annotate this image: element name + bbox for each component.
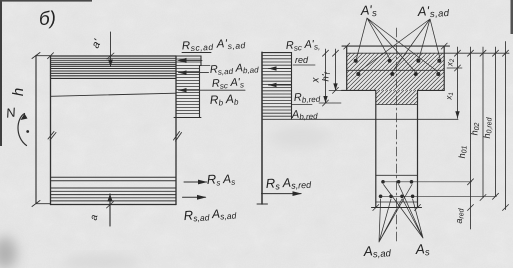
- a_red bottom tick: [468, 205, 474, 211]
- layer boundary / dimension datum line: [347, 52, 509, 54]
- bottom rebar row 1 (original A_s): [381, 180, 413, 184]
- h'_f bottom arrow: [333, 83, 337, 90]
- reduced block hatch: [262, 56, 292, 117]
- scan artifact: bottom-left smudge: [0, 237, 17, 268]
- arrow R_s A_s,red: [262, 193, 302, 195]
- dimension x (compressed depth) line: [325, 49, 327, 103]
- bottom added layer hatch: [51, 188, 177, 201]
- dimension a tick: [107, 202, 114, 209]
- svg-text:h: h: [10, 88, 27, 96]
- beam corner tick: [48, 53, 54, 59]
- moment center dot: [26, 130, 29, 133]
- flange top edge (with width ticks): [342, 45, 450, 47]
- dimension h: bottom tick: [32, 201, 50, 207]
- h_0,red bottom tick: [493, 193, 499, 199]
- flange bottom: [342, 89, 445, 91]
- section hatch (flange): [347, 53, 445, 90]
- h_01 datum tick: [468, 50, 474, 56]
- svg-text:б): б): [38, 8, 56, 30]
- reduced stress block outline: [262, 53, 292, 120]
- stress block bottom extension: [174, 117, 201, 119]
- tick at top datum: [455, 50, 461, 56]
- moment arc: [18, 114, 27, 146]
- h_red bottom tick: [503, 205, 509, 211]
- h_02 datum tick: [480, 50, 486, 56]
- dimension h'_f line: [335, 49, 337, 90]
- label underline: [293, 64, 315, 66]
- extension line steel row 1: [383, 181, 472, 183]
- top hatch band 1 (added compression layer): [51, 58, 177, 64]
- web bottom right tick: [415, 205, 421, 211]
- band 2 lower boundary: [51, 75, 177, 77]
- old flange top line: [347, 69, 445, 71]
- section reference line: [261, 52, 263, 204]
- bottom hatch band upper lines: [51, 177, 177, 181]
- dimension x2/x1 vertical: [457, 47, 459, 118]
- web sides: [376, 90, 418, 207]
- original compression steel level line: [51, 93, 177, 96]
- flange top right tick: [441, 43, 447, 49]
- extension line steel row 2: [379, 195, 497, 197]
- flange top left tick: [344, 43, 350, 49]
- h_01 bottom tick: [468, 179, 474, 185]
- web bottom left tick: [373, 205, 379, 211]
- break mark left edge: [48, 132, 56, 141]
- scan artifact: right edge top: [511, 0, 513, 34]
- arrow R_b,ad: [179, 72, 209, 74]
- beam bottom edge: [51, 204, 177, 206]
- h_red datum tick: [503, 50, 509, 56]
- arrow R_sc,ad: [179, 58, 203, 62]
- tick at x2 bottom: [455, 65, 461, 71]
- label 3 underline / arrow R_sc: [179, 89, 246, 91]
- beam outline right edge: [175, 56, 177, 205]
- break mark right edge: [174, 132, 182, 142]
- dimension a arrow: [107, 194, 112, 202]
- scan artifact: top edge line: [0, 0, 92, 2]
- dimension a' line: [110, 32, 112, 67]
- compression zone line: [51, 77, 177, 79]
- flange rebar row 1 (added): [354, 59, 442, 63]
- extension line at x2 level: [447, 67, 462, 69]
- svg-text:red: red: [295, 55, 309, 65]
- leaders from A'_s,ad: [359, 19, 440, 72]
- reference line foot: [257, 203, 268, 205]
- x extension line: [319, 102, 341, 104]
- dimension h_0,red vertical: [495, 47, 497, 196]
- h'_f extension: [329, 89, 343, 91]
- arrow R_s A_s: [184, 181, 207, 183]
- dimension h_02 vertical: [482, 47, 484, 198]
- arrow R_s,ad A_s,ad: [183, 196, 206, 198]
- leaders from A_s: [384, 185, 424, 239]
- label R_b,red underline: [292, 104, 312, 106]
- scan artifact: dark left edge: [0, 0, 2, 146]
- stress block hatch: [176, 59, 210, 114]
- beam top edge: [51, 55, 177, 57]
- leaders from A'_s: [357, 18, 438, 72]
- reduced block bottom / extension line to x1 dim: [262, 118, 458, 120]
- dimension a' arrow: [108, 60, 113, 67]
- web bottom boundary line 1: [376, 174, 418, 176]
- x top tick: [323, 50, 329, 56]
- arrow into reduced block (top): [269, 68, 292, 70]
- stress block (elevation) outline: [176, 56, 201, 118]
- section hatch (web compressed part): [376, 90, 418, 104]
- dimension h_red vertical: [505, 42, 507, 210]
- web bottom boundary line 2: [376, 201, 418, 203]
- top hatch band 2 (original compression steel zone): [51, 69, 177, 74]
- h_02 bottom tick: [480, 195, 486, 201]
- h'_f top tick: [333, 50, 339, 56]
- dimension h: top tick: [32, 53, 50, 59]
- dimension h_01 vertical: [470, 47, 472, 229]
- dimension a' tick: [107, 53, 114, 59]
- centerline: [396, 28, 398, 243]
- dimension h: vertical line: [35, 56, 37, 204]
- svg-text:Rsc A's: Rsc A's: [212, 76, 245, 91]
- label 1 underline: [182, 52, 211, 54]
- dimension a line: [109, 194, 111, 226]
- h_0,red datum tick: [493, 50, 499, 56]
- arrow at x1 bottom: [455, 111, 459, 118]
- leaders from A_s,ad: [379, 185, 412, 243]
- bottom rebar row 2 (added A_s,ad): [379, 195, 415, 199]
- x bottom arrow: [323, 96, 327, 103]
- web bottom edge: [372, 207, 422, 209]
- flange outline: [347, 46, 445, 90]
- arrow into reduced block (middle): [269, 84, 292, 86]
- compressed depth bottom line in web: [376, 104, 418, 106]
- moment arrowhead: [21, 114, 28, 121]
- beam outline left edge: [50, 56, 52, 205]
- top band boundary: [51, 65, 177, 67]
- flange rebar row 2 (original): [356, 72, 440, 76]
